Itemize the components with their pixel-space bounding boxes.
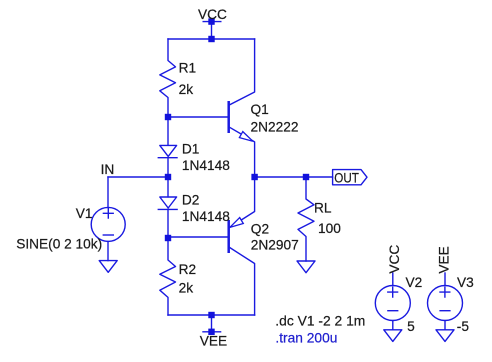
svg-text:2N2907: 2N2907 xyxy=(251,238,299,253)
diode D2 triangle xyxy=(160,197,177,208)
svg-text:RL: RL xyxy=(314,201,332,216)
svg-text:2k: 2k xyxy=(179,281,194,296)
svg-text:.dc V1 -2 2 1m: .dc V1 -2 2 1m xyxy=(275,313,365,328)
V1 minus sign xyxy=(103,234,113,236)
svg-text:VEE: VEE xyxy=(200,333,227,348)
VEE flag bar xyxy=(203,331,221,333)
svg-text:2k: 2k xyxy=(179,82,194,97)
transistor Q1 collector xyxy=(229,39,255,105)
wire V3 top lead xyxy=(444,273,446,285)
V3 plus sign xyxy=(440,287,450,297)
svg-text:Q2: Q2 xyxy=(251,222,269,237)
OUT port flag outline xyxy=(333,170,367,185)
transistor Q2 base bar xyxy=(227,220,230,253)
svg-text:Q1: Q1 xyxy=(251,102,269,117)
Q2 emitter arrowhead xyxy=(230,218,244,228)
wire V2 top lead xyxy=(392,273,394,285)
Q1 emitter arrowhead xyxy=(239,132,252,142)
ground below V3 xyxy=(436,330,454,342)
svg-text:V2: V2 xyxy=(406,275,423,290)
wire Q2 base xyxy=(168,236,228,238)
wire V1 top lead xyxy=(107,177,109,208)
svg-text:R2: R2 xyxy=(179,262,197,277)
transistor Q2 collector xyxy=(229,247,255,315)
wire bottom rail VEE xyxy=(168,314,255,316)
wire top rail VCC xyxy=(168,38,255,40)
ground below V2 xyxy=(384,330,402,342)
diode D1 cathode bar xyxy=(158,157,177,159)
resistor R2 body xyxy=(160,238,176,315)
svg-text:1N4148: 1N4148 xyxy=(182,209,230,224)
resistor RL body xyxy=(298,177,314,261)
svg-text:1N4148: 1N4148 xyxy=(182,158,230,173)
junction OUT emitters xyxy=(251,174,257,180)
V3 minus sign xyxy=(440,310,450,312)
resistor R1 body xyxy=(160,39,176,117)
junction on VEE flag bar xyxy=(208,329,214,335)
wire OUT node xyxy=(255,176,333,178)
voltage source V1 circle xyxy=(91,207,125,241)
wire D2 anode lead xyxy=(167,177,169,197)
wire VEE flag stem xyxy=(211,315,213,332)
svg-text:VCC: VCC xyxy=(387,245,402,274)
junction Q2 base node xyxy=(165,235,171,241)
wire D2 cathode lead xyxy=(167,209,169,238)
svg-text:V1: V1 xyxy=(76,206,93,221)
svg-text:OUT: OUT xyxy=(334,170,359,185)
V2 plus sign xyxy=(388,287,398,297)
svg-text:SINE(0 2 10k): SINE(0 2 10k) xyxy=(16,236,102,251)
transistor Q1 emitter xyxy=(229,127,255,177)
svg-text:V3: V3 xyxy=(457,275,474,290)
svg-text:R1: R1 xyxy=(179,61,197,76)
wire Q1 base xyxy=(168,116,228,118)
ground below V1 xyxy=(99,261,117,273)
svg-text:D2: D2 xyxy=(182,193,200,208)
transistor Q1 base bar xyxy=(227,101,230,133)
wire VCC flag stem xyxy=(211,22,213,39)
wire IN node to diode node xyxy=(108,176,168,178)
svg-text:5: 5 xyxy=(407,319,415,334)
junction VEE rail xyxy=(208,312,214,318)
V2 minus sign xyxy=(388,310,398,312)
svg-text:VCC: VCC xyxy=(198,7,227,22)
wire V3 bottom lead xyxy=(444,321,446,330)
svg-text:100: 100 xyxy=(318,221,341,236)
junction IN node xyxy=(165,174,171,180)
voltage source V2 circle xyxy=(375,286,410,321)
diode D2 cathode bar xyxy=(158,208,177,210)
svg-text:IN: IN xyxy=(101,162,115,177)
wire D1 cathode lead xyxy=(167,158,169,177)
svg-text:D1: D1 xyxy=(182,142,200,157)
wire D1 anode lead xyxy=(167,117,169,145)
diode D1 triangle xyxy=(160,145,177,156)
ground below RL xyxy=(297,261,315,273)
VCC flag bar xyxy=(203,21,221,23)
junction VCC rail xyxy=(208,36,214,42)
svg-text:-5: -5 xyxy=(457,319,470,334)
svg-text:VEE: VEE xyxy=(437,246,452,273)
svg-text:2N2222: 2N2222 xyxy=(251,120,299,135)
wire V1 bottom lead xyxy=(107,241,109,260)
junction on VCC flag bar xyxy=(208,18,214,24)
V1 plus sign xyxy=(103,209,113,219)
junction RL top xyxy=(303,174,309,180)
transistor Q2 emitter xyxy=(229,177,255,228)
voltage source V3 circle xyxy=(428,286,463,321)
wire V2 bottom lead xyxy=(392,321,394,330)
junction Q1 base node xyxy=(165,114,171,120)
svg-text:.tran 200u: .tran 200u xyxy=(275,331,337,346)
